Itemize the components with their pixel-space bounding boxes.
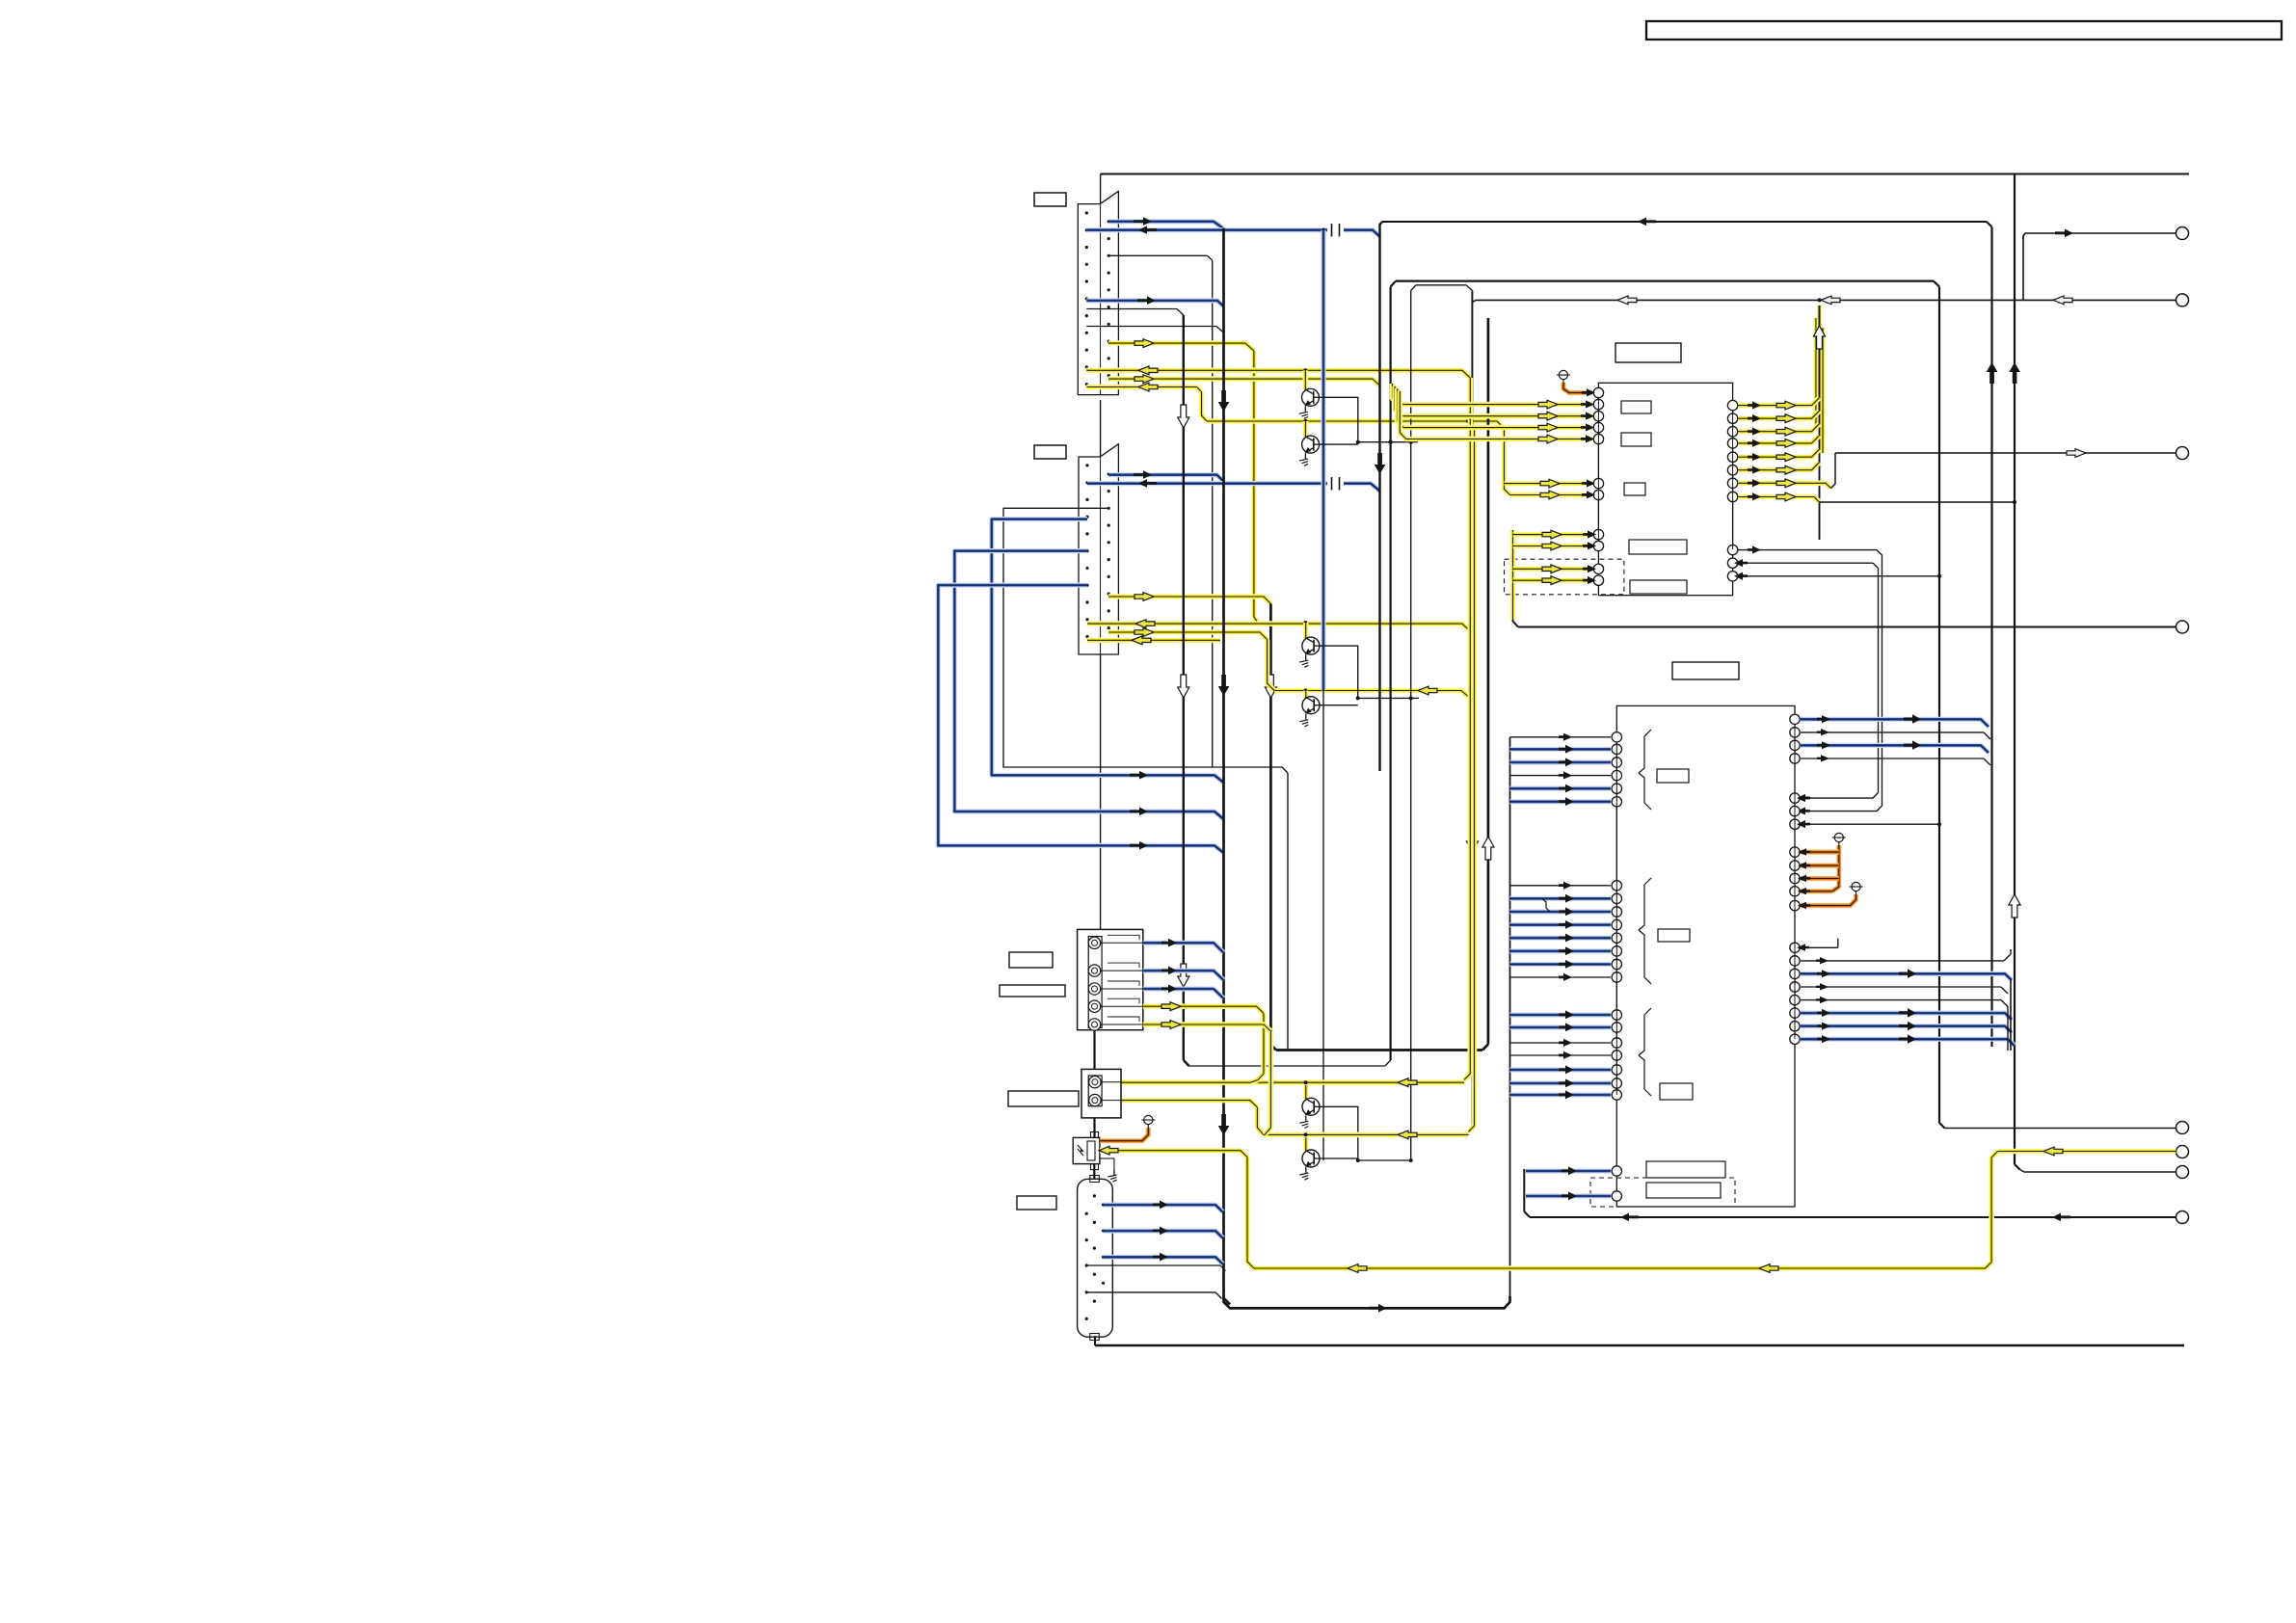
yellow long wire y1316 (1254, 1263, 1991, 1273)
blue wire U2R y746 (1801, 714, 1989, 727)
vertical wire x2099 to H4 (2022, 236, 2024, 300)
wire CN2-B blue loop (954, 551, 1223, 819)
blue wire into U2 left pin y1066 (1510, 1023, 1612, 1031)
junction V1445/base-bus (1389, 440, 1393, 444)
blue wire into U2 left pin y1136 (1510, 1090, 1612, 1099)
wire U1 pin y584 loop to U2 (1734, 559, 1879, 802)
yellow bus x1560 (U1 mid feed) (1505, 429, 1510, 495)
junction on CN1-2 (1322, 228, 1325, 232)
wire into U2 left pin y804 (1510, 771, 1612, 779)
terminal T5 (2176, 1122, 2189, 1134)
blue wire into U2 left pin y932 (1510, 894, 1612, 903)
wire CN2-2 blue in (1087, 479, 1380, 491)
blue wire U2R y1064 (1801, 1022, 2012, 1033)
TB1-TB2 link (1093, 1030, 1095, 1070)
bus vertical x1566 (U2 left bus) (1509, 737, 1511, 1302)
yellow wire from U1 right pin y487 (1738, 463, 1820, 474)
terminal T3 (2176, 447, 2189, 460)
CN3 pin dots (1085, 1194, 1106, 1320)
IC U2 label box g1 (1657, 769, 1689, 783)
label box LB4 (1000, 985, 1065, 997)
yellow wire to U1 left pin 4 (1398, 388, 1594, 432)
wire CN1-2 blue in (1086, 226, 1379, 236)
wire into U2 left pin y1095 (1510, 1051, 1612, 1059)
IC U1 right pins (1727, 400, 1737, 581)
vertical yellow vA x1525 (1464, 378, 1470, 1080)
label box LB6 (1017, 1196, 1056, 1210)
yellow wire PC1 (1099, 1146, 1247, 1157)
yellow jog x1314 (1268, 640, 1274, 691)
bus vertical x1270 (thick) (1218, 228, 1230, 1305)
yellow wire from U1 right pin y420 (1738, 398, 1820, 410)
blue wire U2R y1010 (1801, 969, 2012, 980)
yellow branch vB top (1466, 419, 1475, 428)
loop L2 right vertical (thick) (1391, 281, 1396, 1060)
blue wire into U2 left pin y818 (1510, 785, 1612, 793)
blue wire TB1-3 (1143, 984, 1224, 998)
wire U1 pin y570 loop to U2 (1738, 545, 1882, 814)
op-amp/IC U1 body (1598, 383, 1732, 595)
yellow rail y437 (1207, 421, 1505, 429)
wire into U2 left pin y918 (1510, 882, 1612, 890)
IC U2 bracket group1 (1639, 730, 1651, 810)
wire CN1-Y1 yellow out (1108, 339, 1254, 351)
vertical x1336 down (1287, 773, 1289, 1051)
wire into U2 left pin y764 (1510, 733, 1612, 741)
yellow wire U1 pin y515 to bus (1738, 492, 2016, 504)
wire U2R y983 stub (1797, 939, 1838, 951)
yellow jog x1246 (1202, 392, 1208, 422)
yellow wire to U1 left pin 3 (1395, 386, 1594, 421)
IC U1 internal box 5 (1630, 580, 1687, 594)
yellow wire to T6 (1998, 1147, 2176, 1156)
yellow wire from U1 right pin y459 (1738, 436, 1820, 447)
transistor Q2 (1302, 421, 1320, 453)
Q5Q6 base bus (1320, 1158, 1413, 1162)
blue wire U2 pin y1241 (1526, 1191, 1611, 1200)
jack J1 strip (1088, 1076, 1102, 1106)
ground below Q1 (1299, 406, 1308, 418)
IC U1 dashed group box (1505, 559, 1624, 595)
blue wire into U2 left pin y1110 (1510, 1065, 1612, 1074)
capacitor C1 (1332, 224, 1340, 237)
yellow wire to U1 low pin y602 (1513, 576, 1597, 585)
transistor Q1 (1302, 370, 1320, 406)
junction YA/Q5 (1304, 1080, 1308, 1084)
wire CN1-1 blue out (1108, 217, 1223, 227)
yellow wire B2-2 drop (1121, 1101, 1264, 1135)
wire CN1-Y2 yellow rail (1086, 366, 1470, 378)
TB1 inner wires (1101, 935, 1143, 1024)
yellow wire TB1-4 (1143, 1002, 1264, 1014)
wire U2R y996 up (1801, 949, 2011, 964)
terminal block TB1 strip (1088, 937, 1102, 1028)
jack J1 outer (1081, 1069, 1121, 1118)
wire U2R y759 (1801, 729, 1990, 739)
yellow vert x1311 (1250, 1014, 1264, 1083)
vertical x2012 (thick) (1939, 287, 1945, 1129)
CN2 pin dots (1085, 464, 1109, 638)
IC U2 right pins (1790, 714, 1800, 1044)
terminal T2 (2176, 294, 2189, 306)
yellow wire to U1 low pin y590 (1513, 565, 1597, 573)
wire H3a (1396, 281, 1939, 287)
blue wire into U2 left pin y973 (1510, 934, 1612, 943)
wire CN2-D loop (thin) (1003, 508, 1288, 773)
IC U2 bottom box 2 (1646, 1183, 1721, 1198)
wire to T7 (2020, 1170, 2176, 1173)
vertical x2086 segment (2008, 949, 2011, 1051)
yellow wire to U1 left pin 5 (1400, 391, 1594, 443)
yellow wire to U1 low pin y554 (1513, 530, 1597, 539)
orange jumper bus (1798, 845, 1839, 894)
IC U2 dashed box bottom (1590, 1178, 1735, 1207)
ground below Q3 (1299, 654, 1308, 667)
wire CN2-Yb yellow rail (1087, 620, 1470, 631)
junction CN1-Y2/Q1 (1303, 368, 1307, 372)
yellow wire to U1 mid pin y501 (1505, 479, 1596, 488)
blue wire CN3-3 (1104, 1253, 1223, 1264)
wire to T1 (2025, 229, 2176, 238)
yellow wire from U1 right pin y434 (1738, 411, 1820, 422)
IC U2 bracket group2 (1639, 878, 1651, 984)
yellow rail YA y1123 (1121, 1078, 1464, 1087)
IC U1 internal box 3 (1624, 483, 1645, 495)
wire CN1-3 thin (1108, 255, 1213, 260)
blue wire U2 pin y1215 (1526, 1166, 1611, 1175)
wire CN2-Ya yellow out (1108, 593, 1270, 604)
wire CN2-Yd yellow in (1087, 636, 1220, 645)
yellow wire U1 pin y501 to T3 (1738, 449, 2176, 489)
wire CN1-Y4 yellow in (1086, 383, 1201, 391)
wire CN1-6 thin (1086, 327, 1223, 333)
wire CN1-5 thin (1086, 309, 1184, 316)
vertical x2066 (thick) (1987, 227, 1998, 1048)
yellow wire from U1 right pin y447 (1738, 424, 1820, 436)
wire CN1-Y3 yellow out (1108, 375, 1380, 386)
wire CN2-Yc yellow out (1108, 628, 1268, 640)
IC U1 left pins (1593, 387, 1603, 585)
yellow vert x1294 (1247, 1157, 1254, 1269)
loop L2 bottom thin (1189, 1060, 1391, 1066)
U2 g2 jog wire (1542, 898, 1550, 912)
wire T4 feeder (1513, 620, 2176, 627)
node corner T1 feeder (2023, 233, 2025, 239)
D-sub connector CN3 body (1078, 1176, 1113, 1341)
loop L1 right vertical (thick) (1482, 318, 1494, 1045)
junction Yb/Q3 (1303, 621, 1307, 625)
yellow wire from U1 right pin y474 (1738, 449, 1820, 461)
label box LB3 (1009, 952, 1053, 968)
blue wire into U2 left pin y959 (1510, 920, 1612, 929)
blue wire U2R y1051 (1801, 1008, 2012, 1020)
transistor Q5 (1302, 1082, 1320, 1115)
TB1 screws (1088, 937, 1100, 1030)
PC1 ground (1100, 1158, 1117, 1182)
junction rail437/Q2 (1303, 419, 1307, 423)
yellow wire to U1 low pin y566 (1513, 542, 1597, 550)
J1-PC1 link (1093, 1118, 1095, 1138)
J1 screws (1089, 1077, 1101, 1106)
loop L1 bottom (thick) (1270, 1044, 1488, 1051)
wire H2 y230 (1382, 218, 1992, 227)
junction rail716/Q4 (1303, 689, 1307, 693)
yellow vert x1318 (1265, 1031, 1270, 1134)
Q5 base wire (1320, 1106, 1358, 1160)
yellow wire to U1 mid pin y513 (1510, 491, 1596, 499)
blue wire CN3-1 (1104, 1201, 1223, 1212)
wire CN1-4 blue out (1086, 296, 1223, 306)
test point TP2 (1832, 833, 1846, 845)
Q1Q2 base bus (1320, 440, 1418, 444)
bottom thick return wire y1357 (1224, 1296, 1510, 1313)
label box LB2 (1034, 445, 1066, 459)
connector CN2 body (1079, 444, 1118, 654)
ground below Q2 (1299, 453, 1308, 466)
vertical x1527 black core (1466, 291, 1478, 1132)
vertical x2090 (thick) (2009, 174, 2020, 1170)
junction H4/yellow-bus (1818, 298, 1822, 302)
blue wire into U2 left pin y1124 (1510, 1078, 1612, 1087)
wire into U2 left pin y1082 (1510, 1039, 1612, 1047)
IC U2 bottom-left pins (1612, 1166, 1621, 1201)
blue wire into U2 left pin y831 (1510, 797, 1612, 806)
yellow rail y716 (1274, 686, 1475, 702)
orange wire PC1 (1100, 1128, 1148, 1141)
transistor Q4 (1302, 691, 1320, 714)
title box (top right) (1646, 21, 2282, 40)
wire U2R y855 in (1797, 820, 1941, 828)
vertical x1464 thin (1411, 285, 1416, 1160)
terminal block TB1 outer (1078, 929, 1143, 1029)
blue wire TB1-2 (1143, 967, 1224, 981)
wire H3b (1416, 285, 1472, 291)
Q3Q4 base bus (1320, 696, 1419, 705)
wire U1 pin y597 from x2012 (1734, 572, 1941, 580)
junction YB/Q6 (1304, 1132, 1308, 1136)
IC U2 label box g3 (1660, 1083, 1693, 1100)
Q3 base wire (1320, 646, 1358, 698)
IC U2 bottom box 1 (1646, 1161, 1725, 1178)
blue wire TB1-1 (1143, 939, 1224, 953)
ground below Q5 (1299, 1115, 1308, 1128)
photocoupler PC1 body (1073, 1132, 1100, 1170)
connector CN1 body (1078, 191, 1118, 394)
ground below Q6 (1299, 1167, 1308, 1180)
yellow bus x1887 (U1 outputs rise) (1814, 306, 1826, 540)
yellow wire TB1-5 (1143, 1021, 1271, 1031)
IC U1 internal box 1 (1621, 401, 1651, 413)
wire to T5 (1945, 1128, 2176, 1130)
label box above IC2 (1672, 662, 1739, 679)
terminal T1 (2176, 227, 2189, 240)
main board bottom edge (1095, 1336, 2184, 1345)
IC U2 label box g2 (1658, 929, 1690, 942)
label box LB5 (1008, 1091, 1079, 1106)
transistor Q6 (1302, 1134, 1320, 1167)
label box above IC1 (1615, 343, 1681, 362)
yellow rail YB y1177 (1264, 1131, 1469, 1139)
terminal T4 (2176, 621, 2189, 633)
yellow vert x2066 to T6 (1991, 1152, 1997, 1263)
label box LB1 (CN top-left) (1034, 193, 1066, 206)
vertical x1432 (thick) (1375, 222, 1386, 771)
wire U2R y1037 (1801, 997, 2008, 1007)
terminal T7 (2176, 1166, 2189, 1179)
terminal T6 (2176, 1146, 2189, 1158)
loop L1 left vertical (thick) (1265, 604, 1276, 1045)
wire U2R y787 (1801, 755, 1990, 765)
wire U2R y828 in (1797, 794, 1810, 802)
yellow wire to U1 left pin 2 (1393, 384, 1595, 409)
vertical blue x1373 (1321, 230, 1325, 691)
wire CN3-4 thin (1086, 1265, 1225, 1271)
blue wire into U2 left pin y986 (1510, 946, 1612, 955)
wire T8 line (1530, 1213, 2176, 1222)
PC1-CN3 link (1093, 1164, 1095, 1180)
orange wire pin y939 (1798, 894, 1856, 909)
wire CN2-A blue loop (992, 519, 1224, 783)
wire U2R y1024 (1801, 983, 2008, 994)
blue wire U2R y773 (1801, 740, 1989, 753)
transistor Q3 (1302, 623, 1320, 654)
wire into U2 left pin y1014 (1510, 973, 1612, 981)
IC U1 internal box 2 (1621, 433, 1651, 446)
blue wire U2R y1078 (1801, 1034, 2015, 1046)
J1 inner wires (1101, 1082, 1121, 1101)
wire H4 y311 (1472, 296, 2176, 306)
blue wire into U2 left pin y946 (1510, 907, 1612, 916)
vertical wire x1257 down (1212, 260, 1214, 767)
blue wire into U2 left pin y791 (1510, 758, 1612, 766)
test point TP3 (1850, 882, 1863, 894)
ground below Q4 (1299, 714, 1308, 727)
IC U2 body (1616, 705, 1795, 1207)
main board border top edge (1101, 173, 2189, 175)
yellow bus x1569 (U1 lower) (1510, 530, 1516, 620)
test point TP1 (1557, 370, 1570, 383)
capacitor C2 (1332, 477, 1340, 491)
wire CN2-1 blue out (1108, 470, 1224, 481)
wire CN2-C blue loop (938, 585, 1223, 853)
test point TP4 (1141, 1115, 1155, 1128)
IC U1 internal box 4 (1629, 540, 1687, 554)
Q1 base wire (1320, 397, 1358, 441)
bus vertical x1227 (thick) (1178, 315, 1189, 1066)
orange wire TP1 to U1 pin1 (1563, 383, 1595, 396)
vertical yellow vB x1529 (1469, 428, 1475, 1132)
IC U2 bracket group3 (1639, 1008, 1651, 1096)
blue wire into U2 left pin y1000 (1510, 960, 1612, 969)
wire CN3-5 thin (1086, 1292, 1221, 1299)
blue wire into U2 left pin y1053 (1510, 1010, 1612, 1019)
blue wire CN3-2 (1104, 1227, 1223, 1238)
main board left edge (board fold line) (1100, 174, 1102, 930)
IC U2 left pins (1612, 732, 1621, 1101)
vertical yellow x1301 (1254, 351, 1258, 623)
CN1 pin dots (1085, 211, 1110, 386)
terminal T8 (2176, 1211, 2189, 1224)
vertical thin x1373 lower (1322, 691, 1324, 1161)
junction on CN2-2 (1322, 482, 1325, 486)
vertical x1581 (T8 riser) (1524, 1169, 1530, 1217)
blue wire into U2 left pin y777 (1510, 745, 1612, 754)
